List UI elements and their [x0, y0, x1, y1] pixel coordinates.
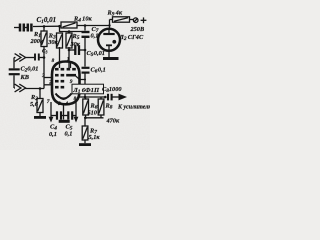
- resistor R7: [84, 118, 86, 126]
- resistor R6: [85, 97, 87, 99]
- ground R2: [39, 113, 41, 117]
- wire anode line: [78, 96, 106, 98]
- ground L2: [103, 57, 119, 60]
- svg-text:470к: 470к: [106, 118, 120, 125]
- filament arrow left: [50, 116, 52, 119]
- resistor R4: [61, 22, 77, 28]
- wire grid line: [43, 47, 45, 85]
- resistor R8: [100, 97, 102, 99]
- ground center: [59, 120, 70, 123]
- svg-text:К усилителю: К усилителю: [117, 105, 150, 111]
- svg-text:0,1: 0,1: [49, 131, 57, 138]
- svg-text:КВ: КВ: [20, 74, 29, 81]
- svg-text:Л1 6Ф1П: Л1 6Ф1П: [72, 87, 100, 95]
- capacitor C4: [51, 115, 56, 117]
- resistor R1: [43, 26, 45, 31]
- capacitor C9: [75, 45, 79, 55]
- svg-text:5,6: 5,6: [30, 101, 39, 108]
- capacitor C6: [82, 68, 90, 73]
- label box L1: [72, 84, 104, 94]
- capacitor C5: [64, 115, 68, 117]
- svg-text:R4 10к: R4 10к: [73, 16, 92, 24]
- svg-text:3: 3: [57, 101, 61, 107]
- svg-text:Л2 СГ4С: Л2 СГ4С: [119, 34, 144, 42]
- svg-text:С9 0,01: С9 0,01: [87, 50, 105, 58]
- svg-text:510: 510: [88, 110, 98, 117]
- wire input lead to C1: [14, 27, 19, 29]
- capacitor C3: [35, 54, 39, 61]
- wire triode anode lead: [76, 76, 86, 80]
- wire rail right: [77, 25, 110, 27]
- svg-text:R8: R8: [105, 103, 113, 111]
- svg-text:30к: 30к: [47, 39, 58, 46]
- wire grid stub pin3: [44, 77, 52, 79]
- resistor R3: [57, 33, 63, 48]
- capacitor C7: [82, 32, 90, 37]
- filament arrow right: [75, 116, 77, 119]
- svg-text:8: 8: [74, 96, 77, 102]
- svg-text:3: 3: [41, 73, 45, 79]
- tube L2: [98, 29, 120, 51]
- tube L1 top leads: [59, 47, 61, 68]
- svg-text:8: 8: [52, 58, 55, 64]
- node R1 top: [43, 25, 46, 28]
- svg-text:0,1: 0,1: [91, 33, 99, 40]
- wire grid to pin: [44, 84, 52, 86]
- svg-text:2: 2: [48, 80, 52, 86]
- tube L1 bottom leads: [50, 102, 52, 116]
- input arrow 2: [15, 84, 21, 92]
- resistor R2: [39, 89, 41, 99]
- resistor R9: [113, 17, 130, 22]
- svg-text:1: 1: [67, 56, 70, 62]
- capacitor C2 trimmer: [13, 58, 15, 69]
- output arrow: [119, 94, 128, 101]
- svg-text:30к: 30к: [70, 41, 81, 48]
- svg-text:R9 4к: R9 4к: [107, 10, 123, 18]
- wire top rail: [33, 25, 61, 27]
- svg-text:С10,01: С10,01: [37, 16, 57, 25]
- node sub-rail: [68, 30, 71, 33]
- svg-text:R5: R5: [72, 33, 80, 41]
- ground R7: [84, 140, 86, 143]
- node C7 top: [84, 24, 87, 27]
- node C9 wire: [68, 49, 71, 52]
- resistor R5: [66, 33, 72, 48]
- svg-text:9: 9: [70, 79, 73, 85]
- svg-text:С81000: С81000: [102, 86, 122, 94]
- svg-text:5,1к: 5,1к: [89, 134, 101, 141]
- svg-text:7: 7: [47, 99, 50, 105]
- capacitor C1: [20, 24, 31, 32]
- wire screen sub-rail: [60, 31, 82, 33]
- input arrow 1: [15, 54, 21, 62]
- svg-text:4: 4: [64, 101, 68, 107]
- svg-text:250В: 250В: [130, 26, 145, 33]
- wire bottom rail: [85, 115, 87, 118]
- wire L2 node: [109, 20, 111, 30]
- capacitor C8: [108, 94, 112, 101]
- svg-text:С20,01: С20,01: [21, 66, 39, 74]
- svg-text:0,1: 0,1: [65, 131, 73, 138]
- terminal +250V: [133, 18, 138, 23]
- tube L1 triode anode bar: [66, 74, 76, 77]
- svg-text:200к: 200к: [30, 38, 44, 45]
- tube L1 grid dashes: [55, 69, 76, 87]
- svg-text:С6 0,1: С6 0,1: [91, 67, 106, 75]
- tube L1 cathode arcs: [56, 94, 72, 99]
- tube L1 envelope: [52, 62, 80, 105]
